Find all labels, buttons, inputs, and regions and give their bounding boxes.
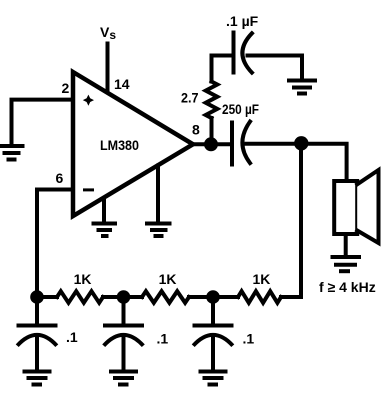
svg-text:f ≥ 4 kHz: f ≥ 4 kHz [319, 279, 376, 295]
svg-text:2: 2 [62, 80, 70, 96]
svg-text:LM380: LM380 [100, 137, 139, 153]
svg-text:14: 14 [114, 76, 130, 92]
svg-text:.1: .1 [66, 329, 78, 345]
svg-text:250 µF: 250 µF [222, 101, 259, 117]
svg-text:2.7: 2.7 [181, 90, 199, 106]
svg-text:6: 6 [56, 170, 64, 186]
svg-text:1K: 1K [159, 271, 177, 287]
svg-text:1K: 1K [253, 271, 271, 287]
svg-text:8: 8 [192, 122, 200, 138]
svg-text:1K: 1K [74, 271, 92, 287]
svg-text:.1 µF: .1 µF [226, 13, 259, 29]
svg-text:.1: .1 [157, 331, 169, 347]
svg-text:.1: .1 [243, 331, 255, 347]
